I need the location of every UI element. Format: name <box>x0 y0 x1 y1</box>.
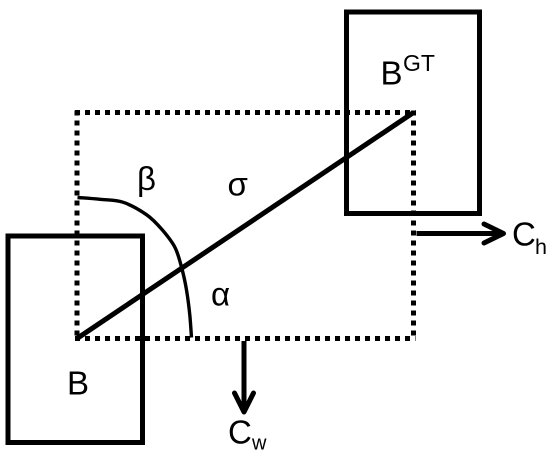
rectangle BGT (ground-truth box, top-right) <box>347 12 480 214</box>
svg-text:C: C <box>512 216 536 253</box>
diagonal line (sigma) <box>77 113 414 339</box>
arrow Cw (vertical, below dotted box) <box>235 341 254 412</box>
dotted enclosing box C <box>75 111 416 341</box>
svg-text:GT: GT <box>403 50 435 76</box>
svg-text:B: B <box>67 365 89 402</box>
svg-text:β: β <box>137 160 156 197</box>
svg-text:h: h <box>535 235 547 259</box>
angle arc (beta/alpha, from left dotted edge to bottom dotted edge) <box>78 198 192 338</box>
svg-text:α: α <box>211 276 230 313</box>
svg-text:w: w <box>251 433 267 455</box>
arrow Ch (horizontal, right of dotted box) <box>417 224 504 243</box>
svg-text:B: B <box>381 55 403 92</box>
svg-text:σ: σ <box>228 166 248 203</box>
svg-text:C: C <box>228 414 252 451</box>
rectangle B (predicted box, bottom-left) <box>8 236 143 443</box>
